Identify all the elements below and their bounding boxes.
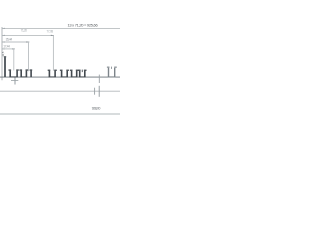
extension line from dim 3 down to slot right of pair 2 xyxy=(28,42,30,71)
fin pair 2 xyxy=(20,69,29,77)
left datum extension line xyxy=(1,27,3,80)
tick at x94.6 on bottom dimension line xyxy=(94,88,96,95)
arrowhead left of dimension line 4 xyxy=(2,48,5,49)
svg-text:13 x 71,20 = 925,66: 13 x 71,20 = 925,66 xyxy=(68,22,99,27)
arrowhead left of dimension line 1 xyxy=(2,28,5,29)
tall end fin xyxy=(4,57,6,77)
fin pair 7 xyxy=(107,67,117,78)
fin pair 1 xyxy=(9,69,19,77)
break tick through profile xyxy=(98,75,100,83)
long tick at x99.2 on bottom dimension line xyxy=(98,86,100,97)
svg-text:11,5: 11,5 xyxy=(1,51,5,57)
arrowhead left of dimension line 3 xyxy=(2,41,5,42)
extension line from dim 4 down to slot of pair 1 xyxy=(13,49,15,71)
base thickness tick horizontal xyxy=(11,80,18,82)
profile base line xyxy=(0,76,120,78)
dimension line 4 (17,44) xyxy=(2,48,15,50)
bottom dimension line (925,66 extent) xyxy=(0,90,120,92)
fin pair 5 xyxy=(70,70,79,78)
arrowhead left of dimension line 2 xyxy=(2,35,5,36)
arrowhead right of dimension line 4 xyxy=(12,48,15,49)
fin pair 3 xyxy=(48,70,57,78)
dimension line 1 (13 x 71,20 = 925,66) xyxy=(2,27,120,29)
extension line from dim 2 down to slot of pair 3 xyxy=(52,35,54,70)
fin pair 4 xyxy=(60,70,69,78)
base thickness tick vertical xyxy=(14,78,16,85)
svg-text:17,44: 17,44 xyxy=(3,44,10,48)
dimension line 2 xyxy=(2,34,54,36)
lone fin xyxy=(30,69,33,77)
overall bottom dimension line xyxy=(0,113,120,115)
arrowhead right of dimension line 3 xyxy=(26,41,29,42)
svg-text:71,20: 71,20 xyxy=(21,29,28,33)
fin pair 6 xyxy=(78,70,87,78)
svg-text:928,00: 928,00 xyxy=(92,106,101,110)
svg-text:35,44: 35,44 xyxy=(6,38,13,42)
arrowhead right of dimension line 2 xyxy=(51,35,54,36)
svg-text:77,08: 77,08 xyxy=(46,29,53,33)
dimension line 3 (35,44) xyxy=(2,41,30,43)
